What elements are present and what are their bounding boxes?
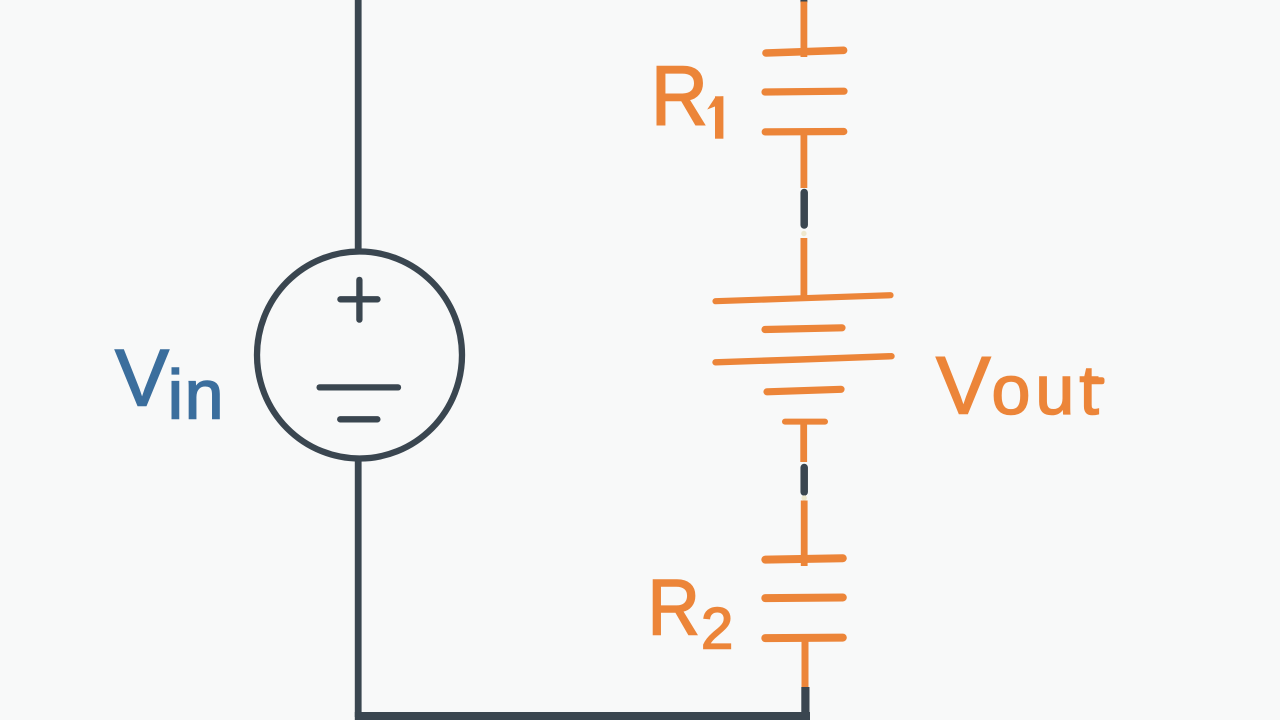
wire: lead into battery symbol (orange) — [801, 238, 808, 297]
label R1 subscript 1 (custom glyph) — [707, 96, 723, 138]
resistor R2 bar 3 — [765, 634, 843, 643]
svg-text:2: 2 — [701, 597, 733, 662]
wire: R1 top lead (orange) — [801, 2, 808, 58]
plus sign inside source — [340, 280, 377, 320]
label Vout — [936, 341, 1104, 432]
label R1 — [651, 49, 708, 143]
wire: bottom horizontal return wire — [355, 712, 810, 720]
wire: T stem lead down (orange) — [800, 422, 807, 462]
pale dot artifact below navy segment — [802, 495, 807, 500]
voltage source V1 circle — [257, 252, 462, 459]
label R2 — [648, 564, 734, 662]
svg-text:R: R — [651, 49, 708, 143]
battery symbol plate 3 (long) — [716, 356, 892, 362]
wire: navy stub joining R2 to bottom wire — [801, 687, 809, 719]
label Vout t-crossbar extension — [1088, 377, 1105, 384]
wire: navy segment on Vout lead — [800, 468, 808, 493]
resistor R1 bar 2 — [765, 88, 844, 96]
wire: navy segment on R1 lower lead — [800, 193, 808, 226]
resistor R2 bar 2 — [765, 594, 843, 603]
battery symbol plate 2 (short) — [765, 328, 842, 330]
battery symbol plate 1 (long) at Vout node — [716, 295, 891, 301]
wire: bottom lead from Vin source down — [355, 456, 362, 717]
label Vin — [115, 334, 225, 434]
wire: top lead from Vin source (left branch, to top edge) — [355, 0, 362, 253]
wire: R2 lower lead (orange) — [802, 638, 809, 687]
svg-text:V: V — [936, 341, 991, 432]
svg-text:V: V — [115, 334, 169, 424]
svg-text:in: in — [168, 356, 225, 434]
svg-text:out: out — [992, 351, 1104, 429]
resistor R1 bar 3 — [765, 128, 844, 136]
wire: R1 lower lead (orange, upper part) — [801, 133, 808, 188]
resistor R1 bar 1 — [766, 50, 844, 53]
svg-text:R: R — [648, 564, 700, 652]
minus sign (two bars) inside source — [320, 387, 398, 419]
pale dot artifact below navy segment — [801, 231, 806, 236]
resistor R2 bar 1 — [765, 558, 843, 559]
wire: navy stub at top edge of R1 lead — [800, 0, 807, 2]
battery symbol T-connector bar — [785, 419, 825, 425]
battery symbol plate 4 (short) — [767, 389, 841, 392]
wire: lead into R2 (orange) — [801, 501, 808, 567]
